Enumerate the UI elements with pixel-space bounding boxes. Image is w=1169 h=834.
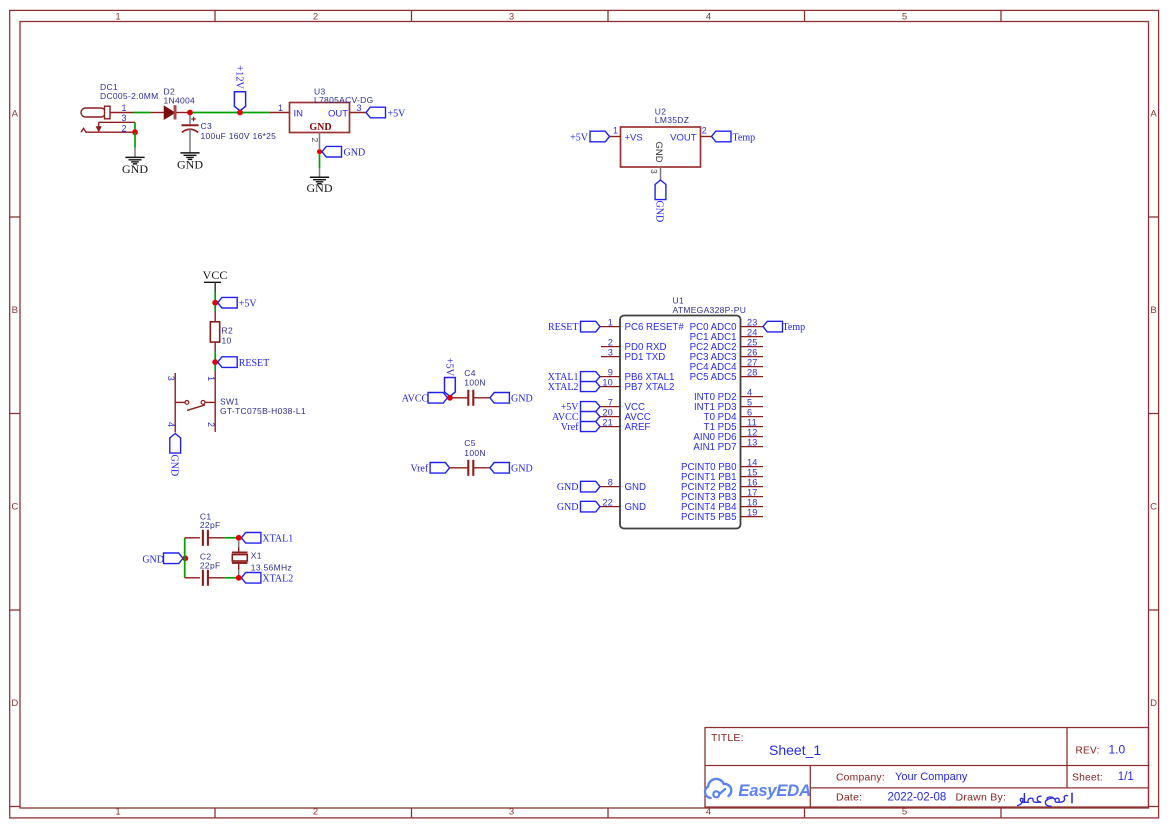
svg-text:XTAL1: XTAL1 [262,534,293,545]
svg-text:D: D [11,698,18,709]
svg-text:6: 6 [747,407,752,417]
svg-text:Company:: Company: [836,772,885,783]
port AVCC at C4 [402,393,448,405]
svg-text:GND: GND [653,142,664,163]
svg-text:7: 7 [608,397,613,407]
svg-text:4: 4 [706,806,711,817]
port GND at U1 pin 22 [557,501,600,513]
svg-text:C3: C3 [201,121,212,131]
svg-text:LM35DZ: LM35DZ [655,115,689,125]
SW1 labels [220,397,306,416]
regulator U3 L7805ACV-DG [270,103,366,150]
svg-text:13: 13 [747,437,758,447]
port Vref at U1 pin 21 [561,422,600,434]
svg-text:2: 2 [702,126,707,136]
svg-text:19: 19 [747,507,758,517]
svg-text:2: 2 [121,123,126,133]
U1 pin 22 GND [600,497,646,513]
node C3 tap on main wire [187,110,193,116]
wire U3 junction to ground [319,154,321,168]
svg-text:16: 16 [747,477,758,487]
svg-text:100uF 160V 16*25: 100uF 160V 16*25 [201,131,277,141]
svg-text:2: 2 [206,422,216,427]
svg-text:2022-02-08: 2022-02-08 [888,792,947,804]
svg-text:+VS: +VS [625,132,643,143]
svg-text:VOUT: VOUT [670,132,697,143]
netflag +5V above C4 [444,358,456,397]
svg-text:2: 2 [310,138,320,143]
X1 labels [251,551,292,573]
frame column numbers top [115,12,907,23]
node +12V junction [237,110,243,116]
svg-text:XTAL2: XTAL2 [548,382,579,393]
svg-text:GND: GND [557,502,579,513]
svg-text:8: 8 [608,477,613,487]
U1 pin 18 PCINT4 PB4 [681,497,763,513]
svg-text:EasyEDA: EasyEDA [738,781,811,800]
svg-text:+5V: +5V [570,133,589,144]
C2 labels [200,552,221,571]
U1 pin 6 T0 PD4 [704,407,763,423]
port GND at U3 [322,146,365,158]
svg-text:C: C [11,502,18,513]
node XTAL1 junction [236,535,242,541]
crystal X1 [232,541,248,575]
C5 labels [464,438,486,458]
svg-text:TITLE:: TITLE: [711,732,744,744]
port RESET [218,357,270,369]
svg-text:C: C [1150,502,1157,513]
svg-text:A: A [1150,109,1157,120]
capacitor C2 [185,570,225,586]
svg-text:GND: GND [511,394,533,405]
svg-text:+5V: +5V [388,109,407,120]
ground GND under DC1 [122,148,148,176]
wire C2 to XTAL2 node [224,577,236,579]
svg-text:2: 2 [313,12,318,23]
svg-text:C5: C5 [464,438,475,448]
U1 pin 11 T1 PD5 [704,417,763,433]
U1 pin 23 PC0 ADC0 [690,317,763,333]
svg-text:AIN1 PD7: AIN1 PD7 [693,442,736,453]
svg-text:5: 5 [747,397,752,407]
svg-text:25: 25 [747,337,758,347]
port Vref at C5 [410,463,449,475]
U1 labels [673,296,747,316]
node crystal gnd junction [182,555,188,561]
connector DC1 barrel jack [81,106,135,132]
svg-text:+12V: +12V [233,65,244,89]
U1 pin 17 PCINT3 PB3 [681,487,763,503]
wire junction down to GND [134,132,136,147]
capacitor C5 [450,460,490,476]
U1 pin 7 VCC [600,397,645,413]
port RESET at U1 pin 1 [548,321,600,333]
svg-text:GND: GND [625,502,647,513]
port GND at crystal network [142,553,183,565]
frame row letters left [11,109,18,710]
U1 pin 1 PC6 RESET# [600,317,684,333]
switch SW1 [175,371,215,432]
svg-text:18: 18 [747,497,758,507]
svg-text:1: 1 [613,126,618,136]
C4 labels [464,368,486,388]
svg-text:GND: GND [557,482,579,493]
port +5V at U3 output [366,107,406,119]
resistor R2 [210,312,219,352]
svg-text:Sheet:: Sheet: [1072,772,1103,783]
svg-text:3: 3 [121,113,126,123]
svg-text:X1: X1 [251,551,262,561]
svg-text:4: 4 [747,387,752,397]
svg-text:27: 27 [747,357,758,367]
ground GND under C3 [180,152,199,154]
svg-text:REV:: REV: [1076,746,1100,757]
svg-text:GND: GND [177,157,203,171]
U1 pin 14 PCINT0 PB0 [681,457,763,473]
svg-text:5: 5 [902,12,907,23]
svg-text:1: 1 [278,103,283,113]
svg-text:Temp: Temp [733,133,756,144]
svg-text:GND: GND [142,554,164,565]
svg-text:4: 4 [166,422,176,427]
svg-text:11: 11 [747,417,757,427]
port GND at C4 [490,393,533,405]
svg-text:Vref: Vref [410,464,428,475]
wire R2 to RESET junction [214,352,216,360]
frame column numbers bottom [115,806,907,817]
U1 pin 4 INT0 PD2 [694,387,763,403]
wire DC1.1 to D2 [134,112,151,114]
svg-text:L7805ACV-DG: L7805ACV-DG [314,95,374,105]
port AVCC at U1 pin 20 [552,412,600,424]
svg-text:RESET: RESET [548,322,579,333]
svg-text:1/1: 1/1 [1118,771,1134,783]
wire VCC to junction [214,293,216,303]
U1 pin 2 PD0 RXD [601,337,667,353]
svg-text:VCC: VCC [203,268,228,282]
svg-text:100N: 100N [464,448,486,458]
capacitor C4 [453,390,490,406]
svg-text:Date:: Date: [836,792,862,804]
svg-text:GND: GND [309,122,331,133]
svg-text:AVCC: AVCC [402,394,429,405]
wire crystal left rail [184,538,186,578]
node XTAL2 junction [236,575,242,581]
svg-text:GT-TC075B-H038-L1: GT-TC075B-H038-L1 [220,406,306,416]
svg-text:GND: GND [122,162,148,176]
U1 pin 13 AIN1 PD7 [693,437,763,453]
svg-text:3: 3 [166,376,176,381]
svg-text:13.56MHz: 13.56MHz [251,562,292,572]
svg-text:PCINT5 PB5: PCINT5 PB5 [681,512,736,523]
U1 pin 27 PC4 ADC4 [690,357,763,373]
svg-text:Drawn By:: Drawn By: [956,792,1007,804]
svg-text:Temp: Temp [783,322,806,333]
wire DC1.3 down to node [134,122,136,132]
mcu U1 ATMEGA328P-PU body [620,316,741,529]
U1 pin 19 PCINT5 PB5 [681,507,763,523]
svg-text:B: B [12,305,18,316]
wire junction to R2 [214,305,216,311]
port GND at U1 pin 8 [557,481,600,493]
svg-text:PC5 ADC5: PC5 ADC5 [690,372,737,383]
svg-text:B: B [1150,305,1156,316]
svg-text:14: 14 [747,457,758,467]
U1 pin 15 PCINT1 PB1 [681,467,763,483]
U1 pin 8 GND [600,477,646,493]
node RESET junction [212,359,218,365]
svg-text:22: 22 [602,497,613,507]
svg-text:PB7 XTAL2: PB7 XTAL2 [625,382,675,393]
svg-text:3: 3 [509,12,514,23]
svg-text:C4: C4 [464,368,475,378]
C1 labels [200,511,221,530]
svg-text:PC6 RESET#: PC6 RESET# [625,322,685,333]
svg-text:U1: U1 [673,296,684,306]
svg-text:+5V: +5V [444,358,455,377]
node U3 ground junction [317,149,322,154]
port XTAL2 [241,573,293,585]
svg-text:1: 1 [115,806,120,817]
svg-text:GND: GND [168,455,179,477]
netflag +12V [233,65,245,110]
port GND at C5 [490,463,533,475]
svg-text:XTAL2: XTAL2 [262,574,293,585]
svg-text:GND: GND [625,482,647,493]
svg-text:RESET: RESET [239,358,270,369]
port +5V at U1 pin 7 [561,402,600,414]
svg-text:ATMEGA328P-PU: ATMEGA328P-PU [673,305,747,315]
svg-text:+5V: +5V [239,299,258,310]
svg-text:1: 1 [608,317,613,327]
svg-text:3: 3 [509,806,514,817]
port GND under SW1 [168,434,180,477]
C3 labels [201,121,277,141]
capacitor C1 [185,530,225,546]
port +5V at U2 [570,131,609,143]
diode D2 1N4004 [151,106,188,120]
netflag VCC [203,268,228,293]
svg-text:100N: 100N [464,378,486,388]
U1 pin 25 PC2 ADC2 [690,337,763,353]
svg-text:PD1 TXD: PD1 TXD [625,352,666,363]
svg-text:OUT: OUT [328,108,348,119]
U1 pin 16 PCINT2 PB2 [681,477,763,493]
node C4 input junction [447,395,453,401]
svg-text:3: 3 [357,103,362,113]
svg-text:23: 23 [747,317,758,327]
svg-text:Vref: Vref [561,422,579,433]
svg-text:D: D [1150,698,1157,709]
svg-text:21: 21 [602,417,613,427]
svg-text:A: A [12,109,19,120]
svg-text:5: 5 [902,806,907,817]
svg-text:12: 12 [747,427,758,437]
DC1 labels [100,82,159,101]
svg-text:1.0: 1.0 [1109,743,1126,757]
svg-text:3: 3 [649,169,659,174]
svg-text:AREF: AREF [625,422,651,433]
U1 pin 20 AVCC [600,407,651,423]
wire C1 to XTAL1 node [224,537,236,539]
svg-text:28: 28 [747,367,758,377]
port XTAL1 at U1 pin 9 [548,372,600,384]
port GND at U2 bottom [654,180,666,222]
svg-text:1: 1 [115,12,120,23]
port XTAL2 at U1 pin 10 [548,382,600,394]
svg-text:1N4004: 1N4004 [164,95,196,105]
U1 pin 5 INT1 PD3 [694,397,763,413]
wire D2 junction to +12V junction [193,112,238,114]
U1 pin 3 PD1 TXD [601,347,665,363]
svg-text:1: 1 [121,103,126,113]
svg-text:DC005-2.0MM: DC005-2.0MM [100,91,159,101]
svg-text:22pF: 22pF [200,560,221,570]
svg-text:Your Company: Your Company [895,771,968,783]
node at DC1 ground junction [132,129,138,135]
U1 pin 28 PC5 ADC5 [690,367,763,383]
frame row letters right [1150,109,1157,710]
node +5V/R2 junction [212,300,218,306]
capacitor C3 polarized [182,115,199,153]
U1 pin 26 PC3 ADC3 [690,347,763,363]
svg-text:IN: IN [294,108,304,119]
port +5V near VCC [218,297,258,309]
D2 labels [164,87,196,106]
svg-text:GND: GND [654,201,665,223]
svg-text:26: 26 [747,347,758,357]
U1 pin 24 PC1 ADC1 [690,327,763,343]
sensor U2 LM35DZ [610,127,712,180]
port XTAL1 [241,533,293,545]
U1 pin 21 AREF [600,417,650,433]
port Temp at U2 [712,131,756,143]
svg-text:4: 4 [706,12,711,23]
svg-text:GND: GND [307,181,333,195]
svg-text:20: 20 [602,407,613,417]
svg-text:24: 24 [747,327,758,337]
svg-text:GND: GND [344,148,366,159]
svg-text:Sheet_1: Sheet_1 [769,742,821,758]
svg-text:10: 10 [222,336,232,346]
port Temp at U1 pin 23 [763,321,805,333]
svg-text:R2: R2 [222,326,233,336]
svg-text:2: 2 [313,806,318,817]
U3 labels [314,86,374,105]
title value drawn-by name (arabic) [1018,793,1072,806]
wire RESET junction to SW1.1 [214,365,216,371]
wire +12V junction to U3.IN [243,112,271,114]
EasyEDA logo [705,779,811,800]
U1 pin 10 PB7 XTAL2 [600,377,674,393]
U1 pin 9 PB6 XTAL1 [600,367,674,383]
ground GND under U3 [307,168,333,195]
svg-text:17: 17 [747,487,758,497]
svg-text:GND: GND [511,464,533,475]
svg-text:2: 2 [608,337,613,347]
R2 labels [222,326,233,346]
svg-text:15: 15 [747,467,758,477]
U1 pin 12 AIN0 PD6 [693,427,763,443]
title block frame [705,728,1149,808]
U2 labels [655,107,689,126]
svg-text:9: 9 [608,367,613,377]
svg-text:10: 10 [602,377,613,387]
svg-text:1: 1 [206,376,216,381]
svg-text:3: 3 [608,347,613,357]
svg-text:22pF: 22pF [200,520,221,530]
